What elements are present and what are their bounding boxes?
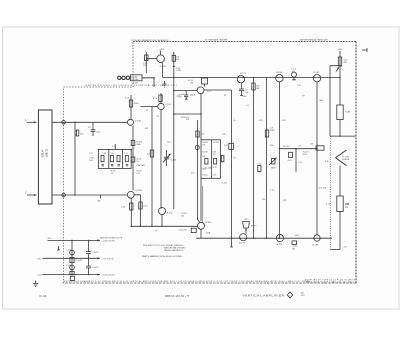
input connector J1 [25, 118, 37, 123]
wire lower jog [330, 212, 340, 250]
svg-text:50k: 50k [245, 219, 248, 221]
svg-text:B-162: B-162 [206, 222, 213, 224]
svg-text:1W: 1W [283, 200, 286, 202]
svg-text:50k: 50k [202, 156, 205, 158]
svg-text:1.52: 1.52 [89, 153, 93, 155]
svg-text:C-160: C-160 [171, 159, 177, 161]
interstage box T [310, 143, 324, 150]
output tube V1184 bottom [313, 235, 321, 247]
diode T1052 [224, 143, 234, 149]
rail y=226 [131, 225, 197, 227]
svg-text:12k: 12k [181, 215, 184, 217]
svg-text:1/2W: 1/2W [176, 70, 181, 72]
svg-text:B-174: B-174 [277, 244, 284, 246]
svg-text:47k: 47k [202, 145, 205, 147]
svg-text:TO DELAY LINE AMPLITUDE CALIB: TO DELAY LINE AMPLITUDE CALIBRATOR [131, 39, 169, 42]
parts note block [142, 244, 186, 258]
decoupling choke L1012 [66, 240, 83, 274]
power rail +225 [47, 238, 116, 242]
chassis dashed border left [63, 87, 65, 283]
balance network box [201, 140, 220, 179]
svg-text:51k: 51k [262, 199, 265, 201]
wire driver to riser [142, 78, 154, 87]
interstage wire y=148.7 [279, 146, 317, 150]
svg-text:2.7k: 2.7k [213, 175, 217, 177]
svg-text:47k: 47k [223, 134, 226, 136]
tube V1052 pickoff [173, 87, 211, 97]
svg-text:+75 VOLTS: +75 VOLTS [102, 258, 114, 260]
svg-text:V-133: V-133 [135, 120, 141, 122]
CRT deflection plates [336, 150, 350, 166]
svg-text:2-19: 2-19 [111, 153, 115, 155]
svg-text:SEE IMPORTANT NOTE: SEE IMPORTANT NOTE [100, 237, 123, 240]
resistor 1.2k left [257, 164, 261, 172]
transistor V1035 [127, 190, 142, 198]
power rail +75 [37, 257, 114, 260]
decoupling choke L1013 [66, 265, 74, 275]
svg-text:7-45: 7-45 [89, 160, 93, 162]
capacitor box C1064 [187, 78, 207, 87]
resistor R1031 180k [125, 95, 139, 119]
svg-text:3-12: 3-12 [213, 167, 217, 169]
output rail y=238 [196, 237, 332, 239]
svg-text:Q-135: Q-135 [136, 190, 143, 192]
junction dots power rails [71, 240, 89, 276]
svg-text:4.7k 1W: 4.7k 1W [319, 188, 327, 190]
svg-text:C-1013: C-1013 [92, 267, 99, 269]
variable capacitor C1060 [163, 150, 177, 166]
chassis dashed border bottom [64, 282, 357, 284]
wire x=256 [253, 78, 255, 239]
bypass capacitor C1013 [86, 258, 99, 274]
svg-text:SEE MECHANICAL PARTS LIST: SEE MECHANICAL PARTS LIST [300, 39, 329, 42]
resistor R 1.5k right [298, 162, 303, 164]
svg-text:B-174: B-174 [240, 73, 247, 75]
wire stage2 riser x=154.5 [141, 107, 158, 227]
svg-text:50k: 50k [310, 143, 313, 145]
svg-text:SHIFT: SHIFT [251, 226, 258, 228]
svg-text:L-1012: L-1012 [66, 249, 73, 251]
svg-text:1%: 1% [111, 173, 114, 175]
wire upper signal y=122 [52, 121, 128, 123]
resistor R1006 300k [131, 141, 143, 147]
shift pot R1172 [243, 219, 258, 234]
coupling cap right of box [221, 156, 224, 162]
svg-text:1-9k: 1-9k [298, 146, 302, 148]
svg-text:VERTICAL AMPLIFIER: VERTICAL AMPLIFIER [243, 294, 285, 298]
resistor R1051 [172, 52, 181, 209]
svg-text:4-7k: 4-7k [288, 160, 292, 162]
svg-text:4.7k: 4.7k [200, 134, 204, 136]
svg-text:1%: 1% [233, 158, 236, 160]
plate load resistor lower [326, 166, 349, 212]
svg-text:R-163: R-163 [202, 175, 207, 177]
svg-text:1.5k: 1.5k [303, 154, 307, 156]
test point circle [195, 146, 199, 150]
svg-text:8W: 8W [345, 207, 348, 209]
transistor V1173 [239, 234, 247, 245]
scattered value labels [145, 85, 329, 237]
resistor R 8.2k x=187.5 [178, 91, 188, 100]
transistor V1033A [128, 119, 142, 125]
resistor R190 [288, 152, 293, 162]
svg-text:B-173: B-173 [239, 243, 246, 245]
wire interconnect x=75 [74, 122, 76, 195]
svg-text:D-41: D-41 [39, 294, 46, 298]
resistor R1060 470 [191, 120, 204, 223]
svg-text:L-1013: L-1013 [66, 265, 73, 267]
svg-text:1W: 1W [143, 65, 146, 67]
wire x=316.5 long [316, 82, 318, 235]
svg-text:B-184: B-184 [313, 244, 320, 246]
transistor V1043 [158, 103, 172, 109]
resistor R 1.7k [265, 127, 274, 137]
svg-text:1W: 1W [176, 59, 179, 61]
attenuator assembly box [89, 144, 132, 175]
wire x=279.5 [278, 82, 280, 238]
transistor V1144 [276, 72, 283, 82]
wire plate jog [330, 120, 356, 137]
chassis dashed border notch [64, 42, 134, 88]
resistor R1013 below rail [70, 276, 74, 280]
svg-text:1.2k: 1.2k [257, 164, 261, 166]
svg-text:+60B: +60B [206, 233, 211, 235]
chassis dashed border top [133, 41, 356, 43]
svg-text:R-168: R-168 [202, 151, 207, 153]
output tube V1154 top [313, 72, 320, 82]
svg-text:PLATES: PLATES [342, 158, 350, 161]
resistor R 4.7k out [292, 241, 298, 251]
pin marker outside border [362, 48, 367, 52]
wire x=332 dotted [329, 136, 331, 249]
svg-text:+350: +350 [159, 49, 165, 51]
svg-text:50k: 50k [270, 145, 273, 147]
svg-text:8W: 8W [344, 62, 347, 64]
svg-text:EARLIER VALUES AND: EARLIER VALUES AND [164, 247, 186, 250]
svg-text:B-154: B-154 [314, 72, 321, 74]
wire below V1061 [161, 215, 163, 227]
wire emitter chain x=160.5 [161, 110, 162, 209]
resistor R 15k 5W [252, 83, 261, 90]
connector node upper [62, 121, 66, 125]
svg-text:1/2W: 1/2W [270, 130, 275, 132]
svg-text:1%: 1% [213, 154, 216, 156]
svg-text:+350: +350 [337, 49, 343, 51]
wire lower signal y=195 [52, 194, 127, 196]
svg-text:1W: 1W [190, 82, 193, 84]
transistor V1061 [159, 208, 174, 215]
trigger pickoff resistor R1041 [143, 50, 148, 73]
wire x=232 [204, 90, 233, 247]
main signal wire y=77.5 [163, 77, 340, 79]
junction dots misc [131, 77, 341, 239]
power rail +150 [37, 273, 115, 276]
svg-text:D-194: D-194 [276, 72, 283, 74]
wire x=329 [330, 66, 340, 136]
dashed feed x=204 [202, 186, 204, 222]
capacitor C1049 [88, 122, 101, 136]
resistor R1047 47k [75, 130, 84, 136]
wire x=267 [266, 78, 268, 239]
svg-text:+225 VOLTS: +225 VOLTS [102, 241, 115, 243]
svg-text:1M: 1M [97, 201, 100, 203]
svg-text:AC BAL: AC BAL [205, 166, 213, 169]
wire x=201 lower [200, 93, 202, 221]
svg-text:C.ATTEN: C.ATTEN [136, 164, 145, 167]
svg-text:V-1017: V-1017 [160, 66, 167, 68]
input connector J2 [25, 190, 37, 196]
emitter resistor R 4.7k [134, 195, 148, 227]
resistor R1136 [239, 83, 248, 98]
svg-text:50-150: 50-150 [283, 146, 290, 148]
svg-text:6AU6: 6AU6 [190, 93, 196, 96]
wire x=296 [295, 149, 297, 172]
svg-text:C-1012: C-1012 [92, 252, 99, 254]
svg-text:R-151: R-151 [222, 182, 228, 184]
svg-text:+60C: +60C [295, 235, 300, 237]
svg-text:AMPLIFIER PLATE LOAD 535 545: AMPLIFIER PLATE LOAD 535 545 ONLY [306, 280, 355, 283]
svg-text:51.2k 1%: 51.2k 1% [179, 229, 188, 231]
svg-text:+225: +225 [47, 238, 53, 240]
emitter resistors V1035: R2.2k [121, 198, 133, 226]
svg-text:W AFTER S N 30000 THIS CIRCUIT: W AFTER S N 30000 THIS CIRCUIT IS ON VER… [85, 84, 178, 87]
svg-text:1.7k: 1.7k [270, 190, 274, 192]
svg-text:+150 VOLTS: +150 VOLTS [102, 275, 115, 277]
transistor V1174 [276, 235, 283, 247]
resistor R1004 1M [97, 195, 100, 203]
chassis dashed border right [355, 42, 357, 284]
svg-text:4.7k: 4.7k [325, 161, 329, 163]
plate load resistor upper [336, 49, 351, 120]
resistor R1010 4.7k [136, 170, 142, 174]
wire y=114 [174, 113, 201, 115]
svg-text:REFERENCE DRAWINGS D-30 TIMI: REFERENCE DRAWINGS D-30 TIMING SWITCH D-… [64, 280, 311, 283]
svg-text:GAIN: GAIN [271, 167, 276, 170]
resistor R collector 8.2k [153, 93, 162, 103]
svg-text:B-161: B-161 [167, 213, 174, 215]
svg-text:DRIVER: DRIVER [131, 79, 139, 81]
gain pot [269, 158, 277, 170]
svg-text:TO TIME BASE TRIGGER: TO TIME BASE TRIGGER [205, 39, 228, 42]
transistor V1162 [191, 222, 212, 238]
connector node lower [62, 193, 66, 197]
svg-text:R-1012: R-1012 [76, 260, 83, 262]
svg-text:1.5M: 1.5M [102, 153, 106, 155]
resistor R 22k mid [147, 150, 154, 157]
svg-text:V-143: V-143 [165, 104, 171, 106]
delay line driver connector [118, 75, 142, 85]
svg-text:1%: 1% [136, 161, 139, 163]
svg-text:MRB 54 JAN 58 +77: MRB 54 JAN 58 +77 [165, 295, 190, 298]
neon B1167 [292, 68, 297, 79]
transistor V1134 [237, 73, 246, 83]
svg-text:LINE 50: LINE 50 [47, 148, 49, 157]
svg-text:5W: 5W [256, 88, 259, 90]
bypass capacitor C1012 [86, 240, 99, 258]
svg-text:+100: +100 [37, 275, 43, 277]
svg-text:1W: 1W [186, 119, 189, 121]
ground symbol legend [33, 281, 38, 287]
tube V1017 pickoff [146, 49, 167, 78]
svg-text:SERIAL RANGES OF: SERIAL RANGES OF [164, 249, 184, 252]
svg-text:1W: 1W [245, 92, 248, 94]
ground pickoff [162, 81, 166, 87]
svg-text:SEE PARTS LIST FOR SERIAL RANG: SEE PARTS LIST FOR SERIAL RANGES [143, 244, 184, 247]
wire interstage x=133 [132, 126, 134, 191]
delay line DL-1045 [38, 110, 52, 204]
svg-text:DELAY: DELAY [42, 149, 45, 157]
svg-text:2-19: 2-19 [124, 153, 128, 155]
svg-text:1.2k: 1.2k [297, 85, 301, 87]
resistor R1008 41.2k [131, 157, 142, 163]
title diamond [287, 292, 292, 298]
test point stub [57, 246, 60, 250]
svg-text:PARTS MARKED WITH BLUE OUTLINE: PARTS MARKED WITH BLUE OUTLINE [142, 255, 182, 258]
svg-text:50-150: 50-150 [213, 142, 219, 144]
